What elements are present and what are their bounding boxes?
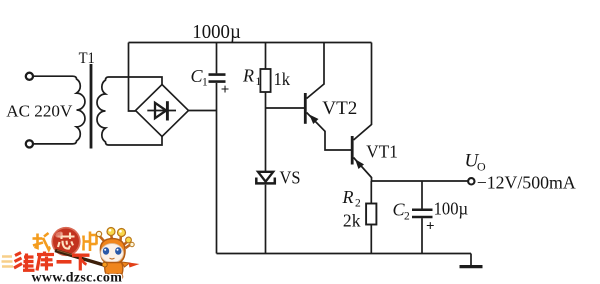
svg-text:T1: T1: [79, 50, 95, 67]
svg-text:O: O: [477, 160, 486, 174]
watermark logo dzsc: [2, 227, 140, 284]
svg-text:+: +: [426, 218, 435, 234]
wire VT2 base wire: [266, 107, 305, 109]
ground: [460, 254, 483, 267]
svg-text:1: 1: [256, 76, 262, 88]
wire top rail to R1: [265, 43, 267, 70]
capacitor C1: [209, 75, 226, 82]
svg-text:100µ: 100µ: [434, 199, 469, 219]
wire top rail: [129, 42, 372, 44]
svg-text:VT1: VT1: [366, 142, 398, 162]
svg-text:1k: 1k: [274, 69, 291, 89]
wire top rail to C1 top plate: [216, 43, 218, 74]
watermark char pian (orange): [84, 232, 97, 252]
svg-text:R: R: [342, 187, 354, 207]
wire output line to C2: [421, 181, 423, 209]
transformer T1 core: [90, 64, 93, 149]
resistor R1: [260, 69, 270, 92]
svg-text:www.dzsc.com: www.dzsc.com: [32, 271, 123, 284]
wire secondary top lead to bridge top corner: [109, 77, 163, 85]
resistor R2: [366, 204, 376, 225]
terminal output: [468, 178, 474, 184]
wire VT2 collector to top rail: [323, 43, 325, 85]
wire VS cathode down to bottom rail: [265, 185, 267, 254]
wire VT1 emitter to output node: [371, 177, 373, 181]
wire AC input top lead: [33, 75, 73, 77]
watermark magnifier with xin: [51, 227, 81, 257]
watermark speed lines: [2, 257, 14, 267]
svg-text:2: 2: [355, 198, 361, 210]
zener diode VS: [256, 172, 275, 184]
wire from top rail down to bridge left corner: [129, 43, 136, 112]
wire secondary bottom lead to bridge bottom corner: [109, 137, 163, 146]
watermark mascot: [96, 228, 139, 283]
transistor VT2: [305, 84, 325, 131]
wire C1 bottom plate down to bottom rail: [216, 83, 218, 254]
svg-text:R: R: [242, 66, 254, 86]
wire R1 bottom down to zener VS: [265, 92, 267, 171]
wire VT2 emitter to VT1 base: [325, 131, 351, 150]
wire bridge right corner to C1 node: [189, 110, 217, 112]
svg-text:−12V/500mA: −12V/500mA: [477, 173, 576, 193]
bridge rectifier diamond: [136, 85, 189, 137]
bridge rectifier inner diode: [147, 101, 176, 120]
svg-text:AC 220V: AC 220V: [6, 102, 72, 121]
svg-text:2: 2: [404, 211, 410, 223]
transistor VT1: [352, 125, 371, 178]
wire R2 bottom to bottom rail: [370, 225, 372, 254]
capacitor C2: [412, 210, 433, 217]
svg-text:VT2: VT2: [322, 99, 357, 119]
terminal input top: [26, 73, 33, 80]
wire bottom rail: [217, 253, 472, 255]
svg-text:1: 1: [202, 77, 208, 89]
transformer T1 secondary winding: [97, 77, 109, 145]
svg-text:1000µ: 1000µ: [192, 22, 241, 43]
wire C2 bottom plate to bottom rail: [421, 218, 423, 253]
watermark char zhao (orange): [33, 233, 51, 250]
watermark text weikuyixia (red): [14, 252, 90, 271]
wire output line: [371, 180, 468, 182]
transformer T1 primary winding: [73, 76, 85, 144]
watermark magnifier stick: [55, 251, 106, 266]
wire VT1 collector to top rail right end: [371, 43, 373, 126]
svg-text:+: +: [221, 82, 230, 98]
wire output node to R2: [370, 181, 372, 204]
svg-text:VS: VS: [280, 168, 301, 188]
svg-text:2k: 2k: [343, 210, 361, 230]
wire AC input bottom lead: [33, 143, 73, 145]
terminal input bottom: [26, 140, 33, 147]
